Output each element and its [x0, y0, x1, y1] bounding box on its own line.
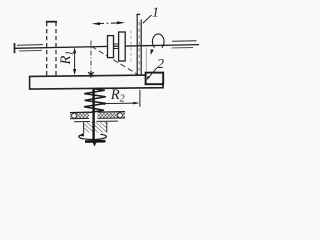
- left shaft end flange: [14, 43, 16, 53]
- support lower ledge left: [74, 121, 90, 123]
- R1 bottom arrowhead: [73, 69, 76, 75]
- left shaft lower outline: [19, 49, 42, 52]
- contact shoe on beam end: [146, 73, 164, 85]
- roller circle right: [118, 113, 123, 118]
- svg-text:R2: R2: [110, 87, 125, 105]
- right shaft upper outline: [172, 40, 197, 43]
- support hatched strip right: [98, 113, 126, 119]
- pivot star marker: [88, 71, 94, 78]
- hidden line right of roller B: [130, 31, 132, 63]
- R2 left arrowhead: [99, 102, 105, 105]
- label 1 leader: [143, 15, 152, 23]
- label 2 leader: [148, 68, 157, 79]
- R1 top arrowhead: [73, 47, 76, 53]
- faint edge right of rod: [145, 48, 147, 72]
- R2 dimension line: [100, 102, 138, 105]
- support lower ledge right: [97, 120, 119, 122]
- roller A on carriage: [108, 36, 114, 58]
- cone diagonal (hidden edge, dashed): [92, 46, 140, 75]
- rotation arrow on right shaft: [152, 34, 164, 48]
- roller B on carriage: [119, 32, 126, 61]
- hidden disc right edge (dashed): [55, 22, 57, 76]
- bushing hatched block: [84, 122, 107, 133]
- spring: [84, 89, 106, 113]
- hub link between rollers: [114, 43, 119, 45]
- label 2 leader arrowhead: [147, 76, 150, 81]
- hidden disc left edge (dashed): [46, 22, 48, 76]
- hidden disc on left shaft: top cap: [46, 21, 57, 23]
- shaft axis line (full width): [15, 45, 200, 49]
- support top surface left: [70, 111, 89, 113]
- svg-text:2: 2: [157, 57, 164, 72]
- screw tip: [93, 143, 97, 147]
- R2 extension line: [139, 90, 141, 107]
- travel double arrow: [92, 21, 126, 25]
- right shaft lower outline: [172, 47, 194, 49]
- left shaft upper outline: [17, 44, 43, 47]
- R2 right arrowhead: [133, 102, 139, 105]
- svg-text:R1: R1: [58, 51, 76, 66]
- ellipse arrowhead: [79, 133, 85, 137]
- vertical rod 1: inner dashed centerline: [138, 22, 140, 74]
- vertical rod 1: top cap: [136, 13, 140, 15]
- rotation arrowhead: [151, 49, 154, 55]
- vertical rod 1: left edge: [136, 14, 138, 76]
- pivot centerline (dash-dot): [90, 41, 92, 72]
- rotation ellipse around screw: [79, 134, 107, 139]
- support hatched strip left: [70, 113, 89, 119]
- screw head bar: [85, 140, 106, 143]
- svg-text:1: 1: [152, 6, 159, 21]
- lever beam: [30, 75, 163, 89]
- roller circle left: [72, 113, 77, 118]
- R1 dimension line: [74, 50, 76, 73]
- vertical rod 1: right edge: [140, 20, 142, 76]
- guide pin / adjusting screw: [92, 89, 94, 142]
- support top surface right: [98, 111, 126, 113]
